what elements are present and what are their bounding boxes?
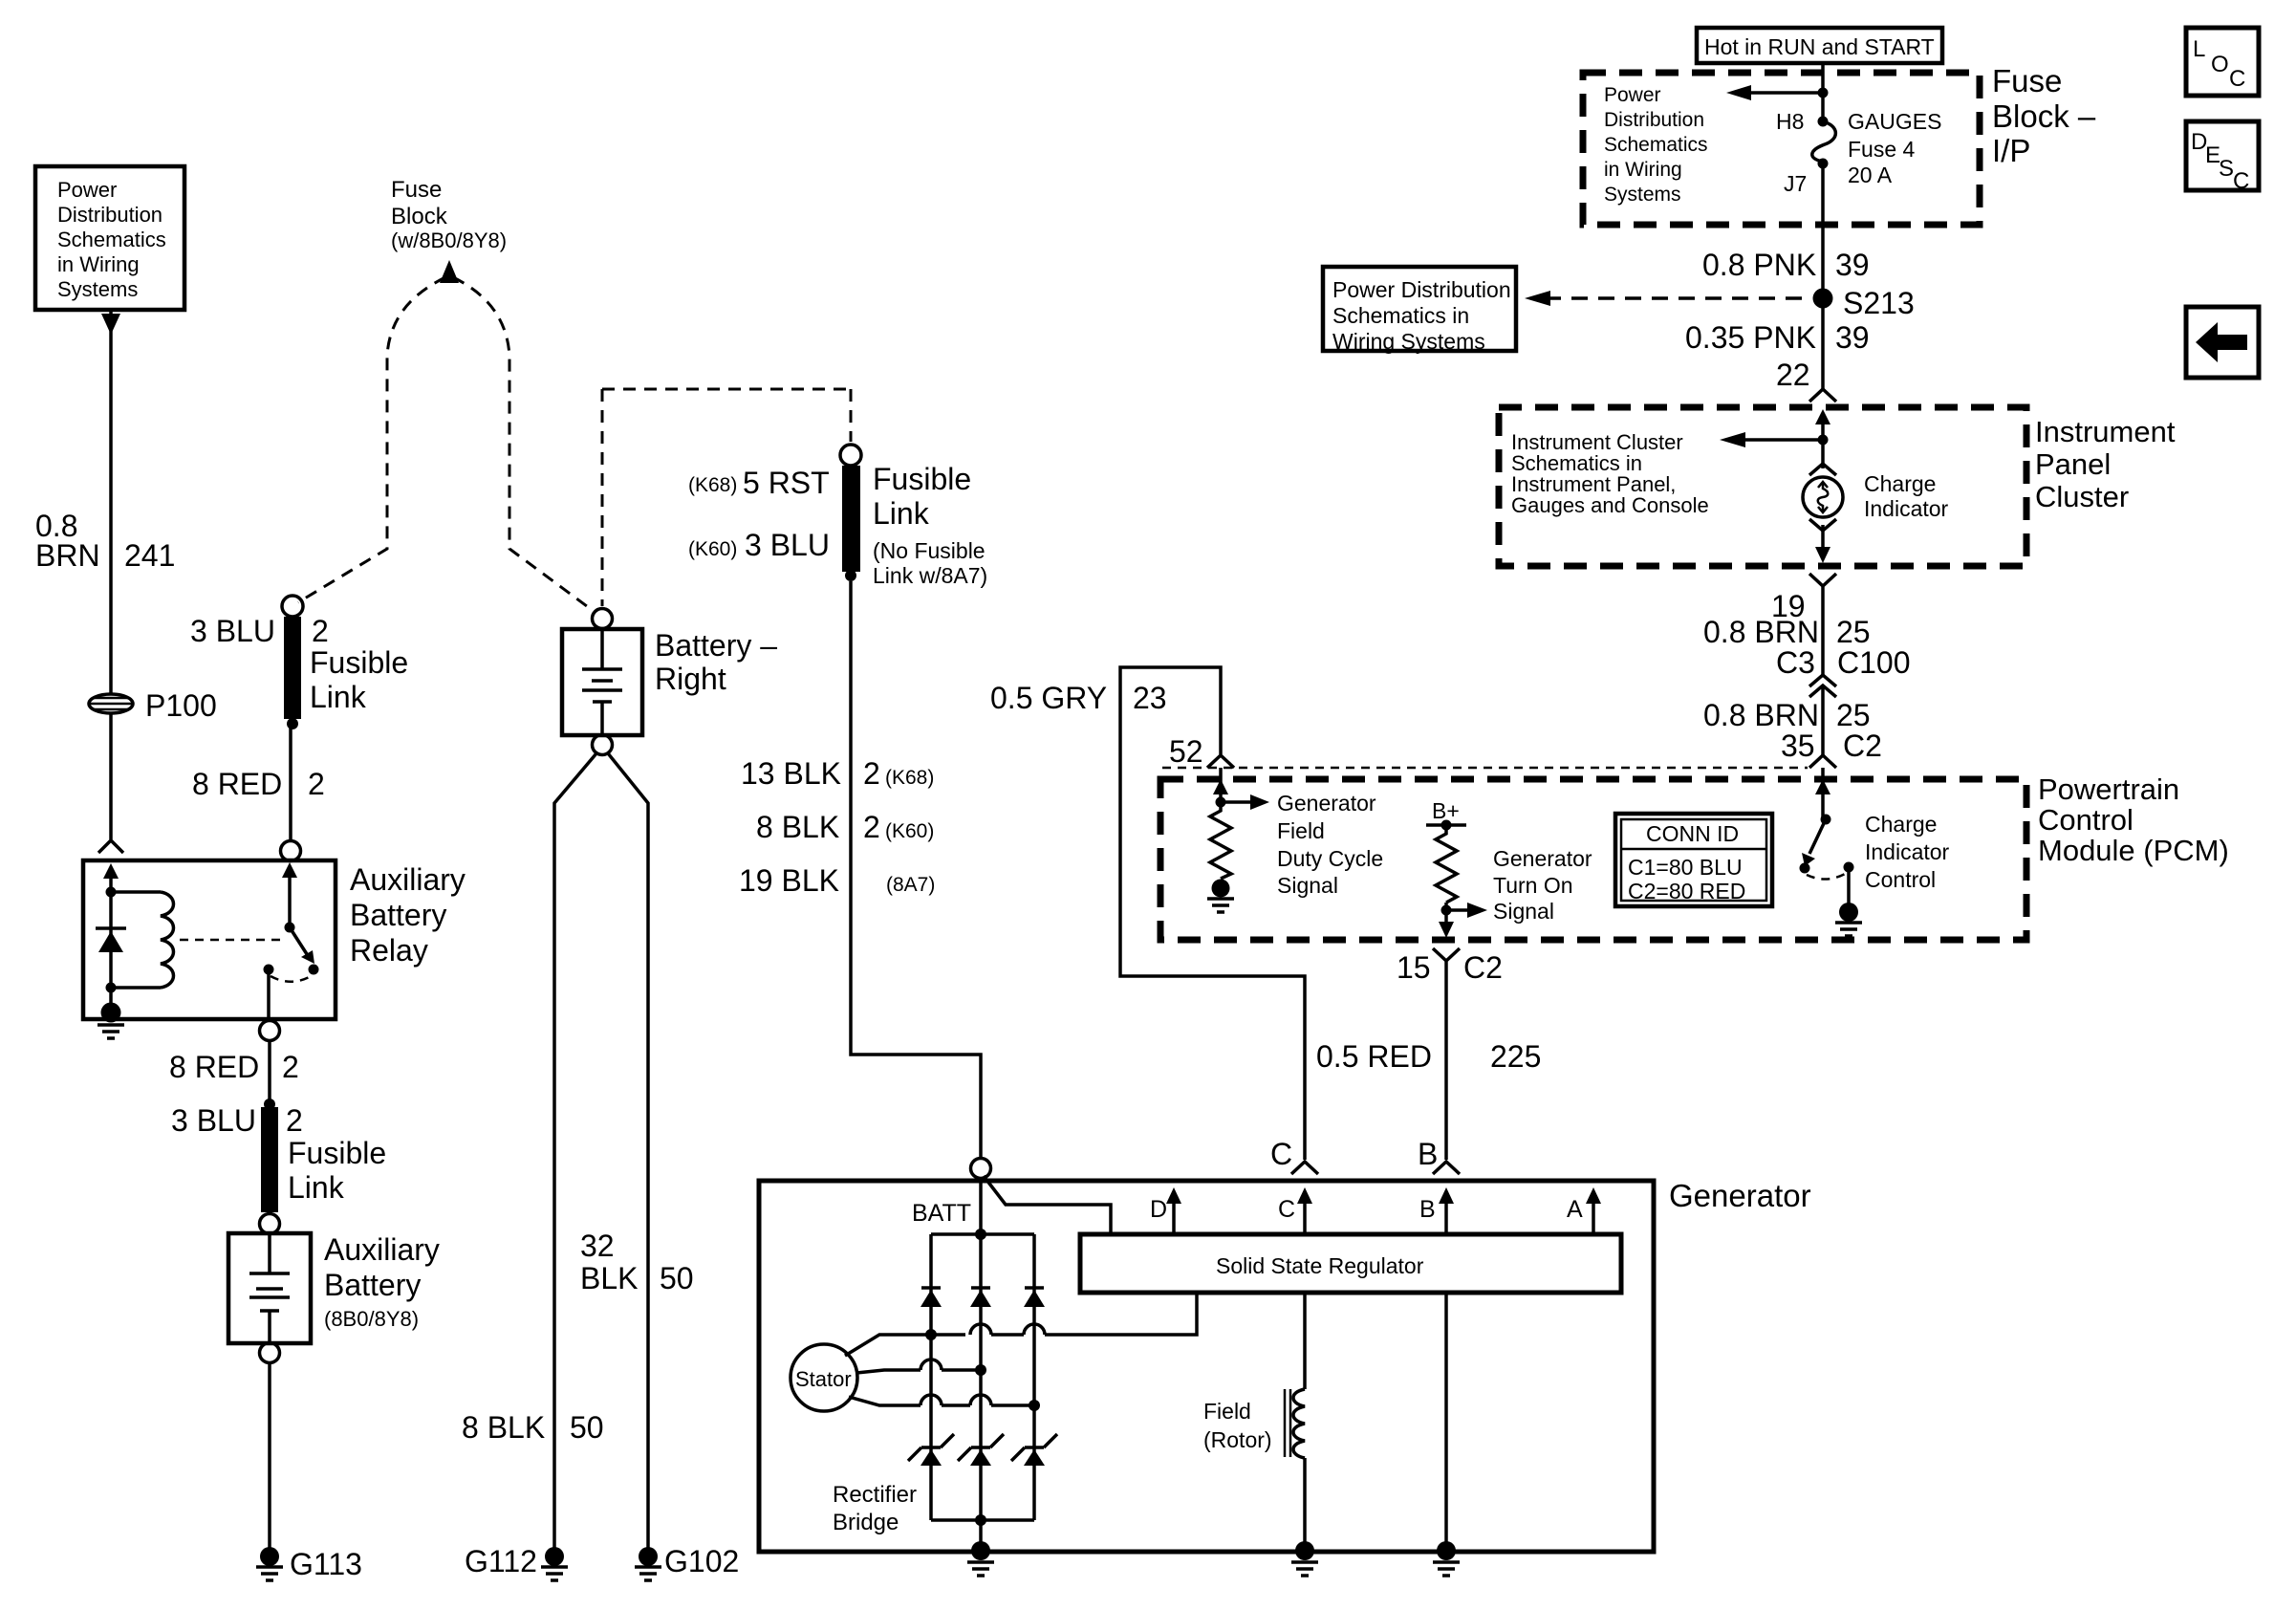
- label Battery - Right: [655, 628, 777, 696]
- svg-text:BLK: BLK: [580, 1261, 638, 1295]
- wire 0.8 PNK 39: [1821, 163, 1825, 390]
- svg-text:G113: G113: [290, 1547, 362, 1581]
- svg-text:C1=80 BLU: C1=80 BLU: [1628, 855, 1743, 880]
- wire to cluster bottom with down arrow: [1815, 525, 1830, 563]
- wire from fusible link to generator BATT: [851, 581, 981, 1159]
- svg-text:Instrument: Instrument: [2035, 415, 2176, 448]
- svg-text:Signal: Signal: [1493, 899, 1554, 924]
- charge indicator lamp: [1803, 477, 1843, 517]
- reference box Power Distribution Schematics in Wiring Systems (mid): [1323, 267, 1516, 354]
- svg-text:B: B: [1419, 1196, 1436, 1223]
- svg-text:Generator: Generator: [1493, 846, 1592, 871]
- label 8 BLK 50: [462, 1410, 604, 1445]
- svg-text:Signal: Signal: [1277, 873, 1338, 898]
- terminal B arrow: [1419, 1187, 1454, 1234]
- arrow left inside fuse block: [1726, 85, 1823, 100]
- labels 3 BLU 2 Fusible Link: [190, 614, 408, 714]
- svg-text:S213: S213: [1843, 286, 1915, 320]
- svg-text:Powertrain: Powertrain: [2038, 772, 2179, 806]
- svg-text:Module (PCM): Module (PCM): [2038, 834, 2229, 867]
- svg-text:Charge: Charge: [1865, 812, 1937, 837]
- wire 0.5 GRY 23 from pin 52 to generator C: [1120, 667, 1305, 1160]
- relay switch arm: [290, 927, 314, 964]
- instrument panel cluster dashed box: [1499, 407, 2026, 566]
- svg-text:S: S: [2219, 156, 2234, 182]
- B+ bar and node: [1426, 820, 1466, 831]
- reference box: Power Distribution Schematics in Wiring Systems (top-left): [35, 166, 184, 310]
- svg-text:GAUGES: GAUGES: [1848, 109, 1941, 134]
- wire from hot box into fuse block: [1821, 63, 1825, 119]
- svg-text:20 A: 20 A: [1848, 163, 1893, 187]
- svg-text:A: A: [1567, 1196, 1583, 1223]
- label 35 C2: [1781, 729, 1882, 763]
- svg-text:Generator: Generator: [1669, 1178, 1811, 1213]
- wire 0.8 BRN 241: [109, 312, 113, 695]
- CONN ID table: [1615, 814, 1772, 906]
- svg-text:22: 22: [1776, 358, 1810, 392]
- battery right box: [562, 629, 642, 735]
- svg-text:Fusible: Fusible: [288, 1136, 386, 1170]
- svg-text:39: 39: [1835, 320, 1870, 355]
- charge indicator control switch: [1800, 815, 1854, 880]
- svg-text:2: 2: [282, 1050, 299, 1084]
- ground (field): [1291, 1541, 1318, 1576]
- svg-text:(w/8B0/8Y8): (w/8B0/8Y8): [391, 228, 507, 252]
- connector chevron C: [1291, 1162, 1318, 1174]
- chevron below charge indicator: [1809, 519, 1836, 531]
- ground inside relay: [97, 1003, 124, 1039]
- connector chevron pin 52: [1207, 755, 1234, 768]
- label 0.5 GRY 23: [990, 681, 1167, 715]
- svg-text:B+: B+: [1432, 798, 1460, 823]
- DESC icon box: [2186, 121, 2259, 194]
- label Powertrain Control Module (PCM): [2038, 772, 2229, 867]
- node above lower fusible link: [264, 1099, 275, 1110]
- fusible link (5 RST / 3 BLU) top circle: [840, 445, 861, 466]
- label Auxiliary Battery (8B0/8Y8): [324, 1232, 440, 1331]
- svg-text:0.8 BRN: 0.8 BRN: [1703, 615, 1819, 649]
- resistor (field duty cycle): [1210, 802, 1231, 879]
- connector P100: [89, 694, 133, 713]
- svg-text:5 RST: 5 RST: [743, 466, 830, 500]
- solid state regulator box: [1080, 1234, 1621, 1293]
- stator phase 2 wire: [856, 1360, 981, 1373]
- svg-text:225: 225: [1490, 1039, 1541, 1074]
- svg-text:8 BLK: 8 BLK: [462, 1410, 545, 1445]
- svg-text:(K68): (K68): [688, 474, 737, 496]
- terminal A arrow: [1567, 1187, 1601, 1234]
- wire to ground in PCM: [1847, 867, 1851, 903]
- fusible link black bar: [284, 617, 301, 719]
- svg-text:Systems: Systems: [57, 277, 138, 301]
- connector 15 C2 below PCM: [1397, 948, 1503, 1160]
- dashed arrow to power distribution reference: [1525, 291, 1809, 306]
- svg-text:2: 2: [863, 756, 880, 791]
- dashed tent left leg to fusible link: [298, 277, 445, 602]
- svg-text:(Rotor): (Rotor): [1203, 1427, 1272, 1452]
- rectifier column 1: [929, 1234, 933, 1520]
- B line below regulator: [1444, 1293, 1448, 1545]
- svg-text:C3: C3: [1776, 645, 1815, 680]
- resistor (generator turn on): [1436, 825, 1457, 903]
- arrow to fuse block: [440, 260, 459, 283]
- svg-text:Schematics in: Schematics in: [1332, 303, 1469, 328]
- label Field (Rotor): [1203, 1399, 1272, 1452]
- svg-text:Power: Power: [1604, 84, 1661, 106]
- wire entering cluster with up arrow: [1815, 409, 1830, 440]
- svg-text:Bridge: Bridge: [833, 1510, 899, 1535]
- svg-text:39: 39: [1835, 248, 1870, 282]
- connector C100 double chevron: [1809, 675, 1836, 755]
- chevron above charge indicator: [1821, 440, 1825, 468]
- svg-text:0.5 GRY: 0.5 GRY: [990, 681, 1107, 715]
- svg-text:2: 2: [286, 1103, 303, 1138]
- svg-text:BATT: BATT: [912, 1200, 971, 1227]
- ground (field duty cycle): [1207, 880, 1234, 913]
- field coil (rotor): [1285, 1389, 1305, 1458]
- Hot in RUN and START box: [1697, 28, 1942, 63]
- svg-text:in Wiring: in Wiring: [1604, 159, 1682, 181]
- label 0.5 RED 225: [1316, 1039, 1541, 1074]
- generator box: [759, 1181, 1654, 1552]
- svg-text:Schematics: Schematics: [1604, 134, 1708, 156]
- svg-text:Fuse 4: Fuse 4: [1848, 137, 1916, 162]
- svg-text:Field: Field: [1277, 818, 1325, 843]
- svg-text:2: 2: [308, 767, 325, 801]
- ground G102: [635, 1547, 661, 1580]
- svg-text:(8A7): (8A7): [886, 874, 935, 896]
- left arrow icon box: [2186, 307, 2259, 378]
- generator field duty cycle arrow up: [1213, 768, 1228, 802]
- svg-text:Link: Link: [873, 496, 930, 531]
- label 8 RED 2 (lower): [169, 1050, 299, 1084]
- arrow right (generator field duty cycle signal): [1221, 794, 1269, 810]
- svg-text:52: 52: [1169, 734, 1203, 769]
- svg-text:(K60): (K60): [688, 538, 737, 560]
- node phase2-column2: [975, 1364, 986, 1376]
- svg-text:in Wiring: in Wiring: [57, 252, 140, 276]
- connector chevron into cluster: [1809, 389, 1836, 402]
- zener diode column 1: [908, 1434, 954, 1466]
- svg-text:Link: Link: [310, 680, 367, 714]
- wire to G113: [268, 1362, 271, 1549]
- svg-text:H8: H8: [1776, 109, 1804, 134]
- relay switch common (top right): [282, 862, 297, 933]
- rectifier column 3: [1032, 1234, 1036, 1520]
- dashed tent right leg to battery: [453, 277, 595, 612]
- svg-text:32: 32: [580, 1229, 615, 1263]
- svg-text:Power: Power: [57, 178, 117, 202]
- svg-text:0.5 RED: 0.5 RED: [1316, 1039, 1432, 1074]
- label Charge Indicator Control: [1865, 812, 1950, 892]
- labels (K68) 5 RST / (K60) 3 BLU: [688, 466, 830, 562]
- fusible link (3 BLU 2) top circle: [282, 596, 303, 617]
- svg-text:Indicator: Indicator: [1865, 839, 1950, 864]
- svg-text:Solid State Regulator: Solid State Regulator: [1216, 1253, 1424, 1278]
- wire left branch: [109, 892, 113, 1009]
- svg-text:19 BLK: 19 BLK: [739, 863, 839, 898]
- svg-text:35: 35: [1781, 729, 1815, 763]
- cluster connector Y below box: [1809, 574, 1836, 675]
- svg-text:Turn On: Turn On: [1493, 873, 1573, 898]
- label 32 BLK 50: [580, 1229, 694, 1295]
- svg-text:L: L: [2193, 36, 2205, 62]
- relay box Auxiliary Battery Relay: [83, 860, 336, 1019]
- svg-text:Auxiliary: Auxiliary: [324, 1232, 440, 1267]
- svg-text:Right: Right: [655, 662, 726, 696]
- svg-text:2: 2: [863, 810, 880, 844]
- svg-text:2: 2: [312, 614, 329, 648]
- circle above battery right: [593, 609, 613, 629]
- wire split to G102: [608, 753, 648, 1549]
- label GAUGES Fuse 4 20 A: [1848, 109, 1941, 187]
- svg-text:O: O: [2211, 52, 2229, 77]
- dashed link coil to switch: [180, 939, 280, 942]
- svg-text:Link: Link: [288, 1170, 345, 1205]
- svg-text:C100: C100: [1837, 645, 1911, 680]
- svg-text:BRN: BRN: [35, 538, 100, 573]
- arrow from reference box: [101, 314, 120, 335]
- svg-text:0.8 PNK: 0.8 PNK: [1702, 248, 1816, 282]
- svg-text:Cluster: Cluster: [2035, 480, 2129, 513]
- label Auxiliary Battery Relay: [350, 862, 466, 968]
- svg-text:CONN ID: CONN ID: [1646, 821, 1739, 846]
- wire 8 RED 2 below relay: [268, 1040, 271, 1101]
- label Rectifier Bridge: [833, 1482, 917, 1535]
- svg-text:D: D: [1150, 1196, 1167, 1223]
- svg-text:Battery: Battery: [350, 898, 446, 932]
- svg-text:Block –: Block –: [1992, 98, 2096, 134]
- svg-text:C2=80 RED: C2=80 RED: [1628, 879, 1745, 903]
- diode top column 1: [921, 1288, 942, 1307]
- svg-text:Stator: Stator: [795, 1367, 852, 1391]
- auxiliary battery box: [228, 1233, 311, 1343]
- rectifier top rail: [931, 1232, 1034, 1236]
- label 0.8 PNK 39: [1702, 248, 1870, 282]
- svg-text:(K60): (K60): [885, 820, 934, 842]
- svg-text:Distribution: Distribution: [1604, 109, 1704, 131]
- label 0.35 PNK 39: [1685, 320, 1870, 355]
- svg-text:Generator: Generator: [1277, 791, 1376, 816]
- node bottom rail: [975, 1514, 986, 1526]
- labels 13 BLK 2 (K68) / 8 BLK 2 (K60) / 19 BLK (8A7): [739, 756, 935, 898]
- rectifier bottom rail: [931, 1518, 1034, 1522]
- circle below auxiliary battery: [260, 1343, 280, 1363]
- svg-text:8 RED: 8 RED: [169, 1050, 259, 1084]
- svg-text:Panel: Panel: [2035, 447, 2111, 481]
- svg-text:Fusible: Fusible: [310, 645, 408, 680]
- arrow left inside cluster: [1720, 432, 1823, 447]
- fuse GAUGES Fuse 4 20A: [1812, 117, 1836, 169]
- svg-text:0.8 BRN: 0.8 BRN: [1703, 698, 1819, 732]
- label Fuse Block - I/P: [1992, 63, 2096, 168]
- svg-text:Power Distribution: Power Distribution: [1332, 277, 1511, 302]
- svg-text:C: C: [2233, 168, 2249, 194]
- svg-text:50: 50: [570, 1410, 604, 1445]
- splice S213: [1813, 289, 1833, 309]
- svg-text:(No Fusible: (No Fusible: [873, 538, 986, 563]
- svg-text:C: C: [2229, 66, 2245, 92]
- svg-text:Hot in RUN and START: Hot in RUN and START: [1704, 34, 1935, 59]
- svg-text:C: C: [1270, 1137, 1292, 1171]
- wire down with arrow at PCM bottom: [1439, 903, 1454, 938]
- label Generator Turn On Signal: [1493, 846, 1592, 924]
- thin dashed connector line at PCM top: [1162, 767, 1808, 770]
- zener diode column 2: [958, 1434, 1004, 1466]
- svg-text:3 BLU: 3 BLU: [745, 528, 830, 562]
- svg-text:25: 25: [1836, 698, 1871, 732]
- node (coil top): [106, 887, 117, 898]
- label 0.8 BRN 25 (upper): [1703, 615, 1871, 649]
- svg-text:B: B: [1418, 1137, 1438, 1171]
- wire BATT to rectifier rail: [979, 1178, 983, 1234]
- battery right symbol: [582, 629, 622, 735]
- wire split to G112: [554, 753, 596, 1549]
- svg-text:(K68): (K68): [885, 767, 934, 789]
- svg-text:Auxiliary: Auxiliary: [350, 862, 466, 897]
- label C3 C100: [1776, 645, 1911, 680]
- wire 8 RED 2 above relay: [289, 724, 292, 841]
- svg-text:241: 241: [124, 538, 175, 573]
- reference text Instrument Cluster Schematics: [1511, 430, 1709, 517]
- node below fusible link: [287, 718, 298, 729]
- terminal C arrow: [1278, 1187, 1312, 1234]
- svg-text:Systems: Systems: [1604, 184, 1681, 206]
- labels 3 BLU 2 Fusible Link (lower): [171, 1103, 386, 1205]
- stator phase 1 wire to regulator: [845, 1293, 1197, 1356]
- svg-text:Field: Field: [1203, 1399, 1251, 1424]
- svg-text:Gauges and Console: Gauges and Console: [1511, 493, 1709, 517]
- svg-text:C2: C2: [1463, 950, 1503, 985]
- connector C2 chevron at PCM: [1809, 755, 1836, 768]
- svg-text:J7: J7: [1784, 171, 1807, 196]
- node (generator turn on): [1441, 905, 1452, 916]
- svg-text:Fuse: Fuse: [1992, 63, 2062, 98]
- svg-text:8 BLK: 8 BLK: [756, 810, 839, 844]
- svg-text:Block: Block: [391, 204, 448, 229]
- svg-text:Fusible: Fusible: [873, 462, 971, 496]
- svg-text:(8B0/8Y8): (8B0/8Y8): [324, 1307, 419, 1331]
- connector chevron at relay: [98, 840, 123, 853]
- ground (rectifier): [967, 1541, 994, 1576]
- label 0.8 BRN 241: [35, 509, 175, 573]
- terminal D arrow: [1150, 1187, 1181, 1234]
- svg-text:8 RED: 8 RED: [192, 767, 282, 801]
- terminal circle below relay: [260, 1021, 280, 1041]
- label Charge Indicator: [1864, 471, 1949, 521]
- wire below P100: [109, 713, 113, 839]
- node at arrow: [1818, 88, 1829, 98]
- svg-text:Duty Cycle: Duty Cycle: [1277, 846, 1383, 871]
- LOC icon box: [2186, 28, 2259, 96]
- stator phase 3 wire: [849, 1395, 1034, 1405]
- svg-text:Fuse: Fuse: [391, 177, 442, 203]
- fuse block I/P dashed box: [1583, 73, 1980, 225]
- label Fuse Block (w/8B0/8Y8): [391, 177, 507, 252]
- svg-text:Relay: Relay: [350, 933, 428, 968]
- ground G112: [541, 1547, 568, 1580]
- svg-text:Battery: Battery: [324, 1268, 421, 1302]
- relay diode: [96, 928, 126, 952]
- svg-text:G102: G102: [664, 1544, 739, 1578]
- svg-text:3 BLU: 3 BLU: [190, 614, 275, 648]
- svg-text:15: 15: [1397, 950, 1431, 985]
- powertrain control module dashed box: [1160, 779, 2026, 940]
- connector chevron B: [1433, 1162, 1460, 1174]
- ground (B line): [1433, 1541, 1460, 1576]
- svg-text:G112: G112: [465, 1544, 537, 1578]
- terminal circle above relay: [281, 841, 301, 861]
- svg-text:3 BLU: 3 BLU: [171, 1103, 256, 1138]
- svg-text:50: 50: [660, 1261, 694, 1295]
- svg-text:Battery –: Battery –: [655, 628, 777, 663]
- node below center fusible link: [845, 570, 856, 581]
- svg-text:23: 23: [1133, 681, 1167, 715]
- svg-text:C2: C2: [1843, 729, 1882, 763]
- svg-text:I/P: I/P: [1992, 133, 2030, 168]
- rectifier column 2: [979, 1234, 983, 1547]
- label 0.8 BRN 25 (lower): [1703, 698, 1871, 732]
- stator circle: [791, 1344, 857, 1411]
- svg-text:Control: Control: [2038, 803, 2134, 837]
- circle above auxiliary battery: [260, 1214, 280, 1234]
- svg-text:P100: P100: [145, 688, 217, 723]
- arrow right (generator turn on signal): [1446, 903, 1487, 918]
- ground (charge indicator control): [1835, 903, 1862, 936]
- circle below battery right: [593, 735, 613, 755]
- ground G113: [256, 1547, 283, 1580]
- svg-text:Link w/8A7): Link w/8A7): [873, 563, 987, 588]
- BATT terminal circle: [971, 1159, 991, 1179]
- diode top column 3: [1024, 1288, 1045, 1307]
- relay coil branch arrow (left, up): [103, 863, 119, 892]
- lower fusible link black bar: [261, 1107, 278, 1212]
- charge indicator control wire entering PCM: [1815, 768, 1830, 819]
- dashed fuse block rectangle: [602, 389, 851, 606]
- fusible link black bar (center): [842, 466, 860, 572]
- wire contact to bottom terminal: [267, 969, 271, 1021]
- reference text Power Distribution Schematics in Wiring Systems (in fuse block): [1604, 84, 1708, 206]
- wire BATT to regulator: [984, 1176, 1111, 1234]
- field line below regulator: [1303, 1293, 1307, 1545]
- node phase1-column1: [925, 1329, 937, 1340]
- label Fusible Link (No Fusible Link w/8A7): [873, 462, 987, 588]
- svg-text:Schematics: Schematics: [57, 228, 166, 251]
- auxiliary battery symbol: [249, 1233, 290, 1343]
- svg-text:C: C: [1278, 1196, 1295, 1223]
- node (coil bottom): [106, 983, 117, 993]
- node rail-BATT: [975, 1229, 986, 1240]
- svg-text:Rectifier: Rectifier: [833, 1482, 917, 1508]
- node phase3-column3: [1029, 1400, 1040, 1411]
- svg-text:25: 25: [1836, 615, 1871, 649]
- label Generator Field Duty Cycle Signal: [1277, 791, 1383, 898]
- relay coil: [111, 892, 174, 988]
- label 8 RED 2 (upper): [192, 767, 325, 801]
- svg-text:0.35 PNK: 0.35 PNK: [1685, 320, 1816, 355]
- zener diode column 3: [1011, 1434, 1057, 1466]
- svg-text:Wiring Systems: Wiring Systems: [1332, 329, 1485, 354]
- relay switch contacts: [264, 965, 319, 982]
- svg-text:Distribution: Distribution: [57, 203, 162, 227]
- node in cluster: [1818, 435, 1829, 446]
- label Instrument Panel Cluster: [2035, 415, 2176, 513]
- node field duty cycle: [1216, 797, 1226, 808]
- svg-text:Charge: Charge: [1864, 471, 1936, 496]
- svg-text:Indicator: Indicator: [1864, 496, 1949, 521]
- diode top column 2: [970, 1288, 991, 1307]
- svg-text:13 BLK: 13 BLK: [741, 756, 841, 791]
